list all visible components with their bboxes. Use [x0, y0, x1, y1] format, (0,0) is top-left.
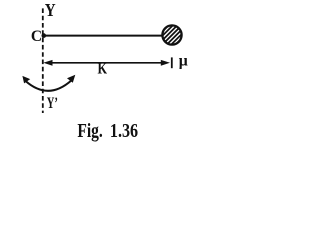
svg-text:C: C: [31, 28, 42, 45]
axis Y-Y' dashed line: [42, 8, 44, 113]
rod wire: [44, 35, 163, 37]
svg-text:Y’: Y’: [47, 95, 58, 112]
svg-text:μ: μ: [179, 52, 188, 69]
pivot dot at C: [42, 33, 47, 38]
arc right arrowhead: [67, 75, 75, 83]
svg-text:Y: Y: [45, 0, 56, 20]
svg-text:Fig.: Fig.: [77, 120, 102, 142]
tick at mu end: [171, 57, 173, 68]
ball (hatched bob): [136, 16, 209, 54]
K dimension double arrow: [49, 62, 164, 64]
arc left arrowhead: [22, 76, 30, 84]
svg-text:K: K: [98, 60, 108, 77]
left arrowhead: [43, 60, 52, 66]
rotation arc: [25, 81, 71, 91]
svg-text:1.36: 1.36: [110, 120, 138, 142]
right arrowhead: [161, 60, 170, 66]
